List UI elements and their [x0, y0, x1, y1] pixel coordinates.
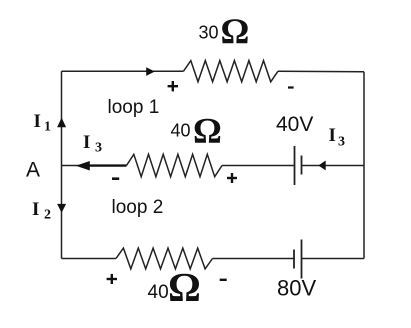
svg-text:Ω: Ω [193, 111, 222, 151]
svg-text:I: I [329, 125, 336, 146]
polarity + (top resistor left) [168, 81, 178, 91]
svg-text:I: I [34, 111, 41, 132]
polarity + (middle resistor right) [227, 173, 237, 183]
svg-text:40: 40 [171, 121, 191, 141]
svg-text:1: 1 [44, 120, 51, 135]
current arrow I3 into node A (leftward) with tail [76, 161, 127, 171]
svg-text:I: I [32, 199, 39, 220]
polarity - (top resistor right) [288, 86, 294, 88]
polarity - (middle resistor left) [112, 177, 119, 180]
wire: bottom left segment [62, 258, 117, 260]
svg-text:3: 3 [338, 135, 345, 150]
svg-text:I: I [83, 132, 90, 153]
svg-text:loop 2: loop 2 [112, 197, 164, 218]
battery 80V: short plate (-) [293, 250, 295, 269]
wire: left vertical branch through node A [61, 71, 63, 258]
wire: middle right segment from battery to right branch [302, 165, 365, 167]
svg-text:2: 2 [44, 208, 51, 223]
current arrow I1 (upward, left branch) [57, 118, 66, 128]
svg-text:A: A [26, 159, 40, 182]
wire: middle segment resistor to 40V battery [222, 165, 295, 167]
resistor 30ohm (top) [184, 61, 279, 82]
current arrow I2 (downward, left branch) [57, 204, 66, 213]
battery 80V: long plate (+) [301, 240, 303, 279]
resistor 40ohm (bottom) [116, 248, 213, 269]
svg-text:40V: 40V [276, 113, 313, 136]
label: I3 (left, into node A) [83, 132, 102, 156]
wire: top horizontal right segment [278, 70, 364, 73]
label: I2 (left branch current) [32, 199, 51, 223]
svg-text:80V: 80V [277, 276, 316, 301]
label: I3 (right side) [329, 125, 346, 150]
battery 40V: short plate (-) [301, 156, 303, 175]
svg-text:3: 3 [95, 141, 102, 156]
current arrow on top wire (rightward) [146, 67, 155, 76]
svg-text:Ω: Ω [168, 264, 201, 310]
wire: right vertical branch [363, 72, 365, 259]
polarity + (bottom resistor left) [107, 274, 117, 284]
wire: middle left segment from node A [62, 165, 127, 167]
label: I1 (left branch current) [34, 111, 52, 135]
battery 40V: long plate (+) [294, 146, 296, 185]
svg-text:Ω: Ω [221, 11, 250, 51]
resistor 40ohm (middle) [127, 154, 223, 176]
current arrow I3 on middle right wire (leftward) [318, 161, 325, 171]
wire: bottom middle segment to battery [213, 258, 295, 260]
svg-text:30: 30 [199, 23, 219, 43]
svg-text:40: 40 [148, 282, 169, 303]
svg-text:loop 1: loop 1 [108, 97, 160, 118]
polarity - (bottom resistor right) [220, 279, 227, 281]
wire: top horizontal left segment [62, 70, 184, 72]
wire: bottom right segment from battery [302, 258, 365, 260]
